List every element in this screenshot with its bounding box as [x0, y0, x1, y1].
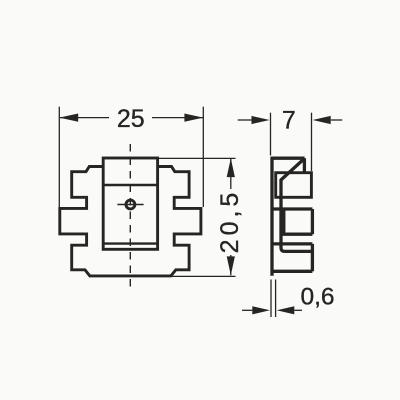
svg-text:25: 25 — [117, 105, 145, 133]
svg-text:20,5: 20,5 — [216, 189, 244, 254]
svg-text:0,6: 0,6 — [301, 284, 335, 311]
svg-text:7: 7 — [282, 106, 296, 134]
